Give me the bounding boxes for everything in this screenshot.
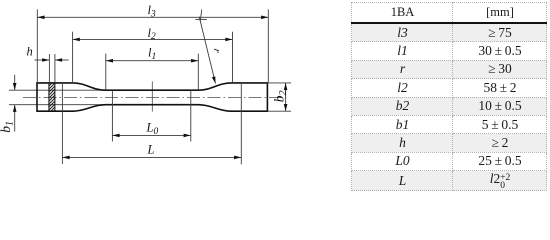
clamp hatch [44,76,56,121]
dimension h [35,54,69,83]
row L [352,171,547,191]
svg-text:b2: b2 [272,90,289,102]
svg-text:b1: b1 [0,121,15,133]
table header row [352,3,547,191]
svg-text:h: h [27,45,33,59]
dimension l2 [73,32,233,83]
svg-text:L: L [147,143,155,157]
dimension L0 [112,90,190,141]
specification table [351,2,547,191]
row b1 [352,115,547,133]
row L0 [352,152,547,170]
b1 extension lines [9,90,106,105]
specimen outline [37,83,267,111]
svg-text:L0: L0 [146,121,159,137]
svg-text:r: r [210,48,222,55]
svg-text:l3: l3 [148,3,156,19]
row h [352,134,547,152]
row b2 [352,97,547,115]
dimension b2 [267,83,291,111]
svg-text:l1: l1 [148,45,156,61]
center line [23,97,286,99]
row r [352,60,547,78]
row l2 [352,79,547,97]
dimension L [62,83,241,164]
vertical center mark [151,81,153,111]
dimension l3 [37,9,268,83]
svg-text:l2: l2 [148,26,156,42]
dimension b1 [14,75,16,132]
row l3 [352,23,547,42]
dimension l1 [106,54,199,91]
radius leader r [195,10,215,84]
row l1 [352,42,547,60]
